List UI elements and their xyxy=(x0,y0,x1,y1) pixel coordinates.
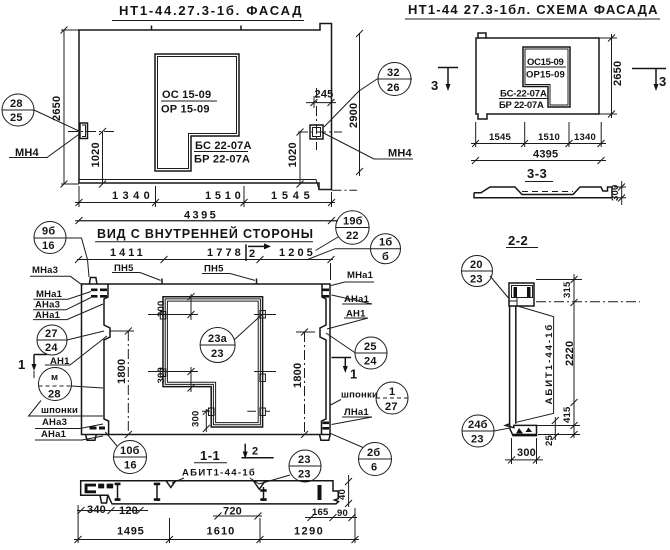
facade bottom dim 4395 xyxy=(75,210,338,225)
label ПН5 #1 xyxy=(112,263,162,285)
left face line with corbel xyxy=(104,284,110,435)
section 3-3 profile xyxy=(474,187,612,198)
dim 1020 right xyxy=(287,129,304,188)
label ЛНа1 right xyxy=(332,407,373,425)
svg-text:2220: 2220 xyxy=(564,341,576,366)
svg-text:40: 40 xyxy=(337,489,348,500)
svg-text:23а: 23а xyxy=(208,333,228,345)
label OC 15-09 xyxy=(161,89,217,116)
beam 1-1 outline xyxy=(81,481,339,504)
svg-text:340: 340 xyxy=(87,504,106,516)
svg-text:32: 32 xyxy=(387,67,400,79)
right face line with corbel xyxy=(320,284,326,435)
svg-text:1б: 1б xyxy=(379,237,392,249)
anchor bar mid-left xyxy=(154,483,160,501)
svg-text:24: 24 xyxy=(45,342,58,354)
dim row 1411/1778/1205 xyxy=(75,247,335,263)
svg-text:27: 27 xyxy=(385,401,398,413)
title facade xyxy=(112,3,304,21)
callout circle 9б/16 xyxy=(34,222,89,278)
label АНа3 left xyxy=(33,298,91,311)
callout circle 32/26 xyxy=(324,63,412,128)
svg-text:24: 24 xyxy=(364,356,377,368)
svg-text:26: 26 xyxy=(387,82,400,94)
callout circle м/28 xyxy=(39,368,104,401)
2-2 axis dash lines xyxy=(537,279,582,281)
dim 165/90 xyxy=(305,507,357,521)
svg-text:МНа3: МНа3 xyxy=(32,265,58,276)
svg-text:245: 245 xyxy=(315,89,334,101)
svg-text:1020: 1020 xyxy=(287,142,299,167)
dim 720 xyxy=(213,506,262,520)
dim 1800 right xyxy=(292,329,315,439)
svg-text:МН4: МН4 xyxy=(388,148,413,160)
svg-text:1: 1 xyxy=(350,367,358,382)
label МН4 right xyxy=(324,133,414,160)
svg-text:23: 23 xyxy=(298,454,311,466)
svg-text:165: 165 xyxy=(312,507,329,518)
svg-text:АБИТ1-44-1б: АБИТ1-44-1б xyxy=(182,468,255,479)
callout circle 23а/23 xyxy=(200,315,262,363)
svg-text:20: 20 xyxy=(470,259,483,271)
wedge mark 1 (1-1) xyxy=(166,481,176,488)
dim 1020 left xyxy=(90,128,106,188)
svg-text:23: 23 xyxy=(298,469,311,481)
svg-text:19б: 19б xyxy=(343,216,363,228)
label шпонки left xyxy=(29,401,104,417)
svg-text:ОР 15-09: ОР 15-09 xyxy=(161,104,210,116)
svg-text:2650: 2650 xyxy=(612,61,624,86)
svg-text:1290: 1290 xyxy=(294,526,323,538)
section mark 2 bottom xyxy=(241,444,273,459)
scheme panel outline xyxy=(476,33,599,119)
callout circle 20/23 xyxy=(462,256,509,299)
svg-text:720: 720 xyxy=(223,506,242,518)
label БС-22-07А scheme xyxy=(499,89,548,112)
svg-text:315: 315 xyxy=(562,281,573,298)
label МНа1 left xyxy=(34,289,92,300)
2-2 panel strip xyxy=(510,306,516,424)
label АНа3 left bottom xyxy=(35,417,103,429)
svg-text:25: 25 xyxy=(544,435,555,446)
dowel dashes bottom-right xyxy=(323,422,330,430)
anchor bar mid-right xyxy=(260,487,266,501)
svg-text:1: 1 xyxy=(18,357,26,372)
scheme window opening xyxy=(523,47,570,107)
callout circle 1б/6 xyxy=(307,234,401,264)
svg-text:16: 16 xyxy=(42,240,55,252)
callout circle 27/24 xyxy=(37,325,104,355)
2-2 top box (window frame section) xyxy=(509,283,534,306)
callout circle 23/23 xyxy=(259,450,321,484)
bottom-left lug xyxy=(86,435,97,441)
facade top edge tick right xyxy=(240,26,242,31)
svg-text:300: 300 xyxy=(156,367,167,383)
dim 300 window top xyxy=(148,293,276,320)
svg-text:ВИД С ВНУТРЕННЕЙ СТОРОНЫ: ВИД С ВНУТРЕННЕЙ СТОРОНЫ xyxy=(97,226,314,241)
svg-text:1495: 1495 xyxy=(117,526,144,538)
svg-text:НТ1-44 27.3-1бл. СХЕМА ФАСАДА: НТ1-44 27.3-1бл. СХЕМА ФАСАДА xyxy=(408,2,658,17)
title 2-2 xyxy=(506,233,538,248)
svg-text:1610: 1610 xyxy=(207,526,235,538)
label шпонки right xyxy=(331,390,379,406)
facade top edge tick left xyxy=(151,26,153,31)
dim 300 (2-2 bottom) xyxy=(505,438,543,464)
label МНа3 xyxy=(30,265,83,285)
callout circle 2б/6 xyxy=(330,433,391,475)
svg-text:ОС15-09: ОС15-09 xyxy=(527,57,564,68)
svg-text:24б: 24б xyxy=(468,419,488,431)
dim 1800 left xyxy=(110,328,134,439)
svg-text:28: 28 xyxy=(48,389,61,401)
label БС 22-07А xyxy=(194,140,252,166)
dim 300 window mid xyxy=(148,367,276,392)
facade panel bottom inner line xyxy=(79,180,332,190)
section mark 1 right xyxy=(332,358,359,382)
dim 300 window bottom xyxy=(191,408,271,432)
dim 300 (3-3) xyxy=(610,181,626,205)
svg-text:120: 120 xyxy=(119,505,138,517)
svg-text:4395: 4395 xyxy=(533,149,558,161)
svg-text:1510: 1510 xyxy=(538,132,560,143)
dim row 1495/1610/1290 xyxy=(74,505,359,543)
callout circle 24б/23 xyxy=(462,415,510,447)
svg-text:БР 22-07А: БР 22-07А xyxy=(194,154,250,166)
svg-text:9б: 9б xyxy=(42,226,55,238)
dim 4395 middle xyxy=(77,220,338,222)
svg-text:1545: 1545 xyxy=(489,132,511,143)
callout circle 25/24 xyxy=(326,333,387,369)
dim 2900 xyxy=(348,30,363,176)
dim 25 (2-2) xyxy=(544,417,559,446)
dowel dashes top-left xyxy=(91,289,107,298)
svg-text:3: 3 xyxy=(659,74,667,89)
dowel dashes top-right xyxy=(323,289,330,298)
svg-text:6: 6 xyxy=(371,462,377,474)
svg-text:МНа1: МНа1 xyxy=(347,270,374,281)
dim 315/2220/415 (2-2 right) xyxy=(520,274,580,438)
svg-text:2-2: 2-2 xyxy=(508,233,528,248)
section mark 1 left xyxy=(18,355,47,379)
callout circle 28/25 xyxy=(2,94,80,132)
label МНа1 right xyxy=(331,270,374,286)
svg-text:2: 2 xyxy=(249,248,255,260)
svg-text:10б: 10б xyxy=(120,445,140,457)
label АН1 left xyxy=(45,336,107,367)
svg-text:ЛНа1: ЛНа1 xyxy=(344,407,369,418)
svg-text:300: 300 xyxy=(191,411,202,427)
svg-text:300: 300 xyxy=(610,185,621,201)
svg-text:ОС 15-09: ОС 15-09 xyxy=(162,89,211,101)
svg-text:2: 2 xyxy=(252,446,258,458)
svg-text:2б: 2б xyxy=(367,447,380,459)
dim 245 top right xyxy=(306,88,336,108)
svg-text:1: 1 xyxy=(389,386,395,398)
svg-text:ПН5: ПН5 xyxy=(204,264,224,275)
dim row 340/120 xyxy=(77,504,148,517)
section mark 2 top xyxy=(246,243,271,261)
dowel dashes bottom-left xyxy=(90,427,106,430)
middle window opening xyxy=(163,297,263,427)
facade bottom dim row 1340/1510/1545 xyxy=(75,186,335,207)
svg-text:23: 23 xyxy=(471,434,484,446)
callout circle 1/27 xyxy=(376,382,408,414)
svg-text:22: 22 xyxy=(346,230,359,242)
svg-text:БС 22-07А: БС 22-07А xyxy=(195,140,252,152)
section mark 3 right xyxy=(632,69,667,92)
svg-text:300: 300 xyxy=(156,301,167,317)
label АБИТ1-44-1б (2-2) xyxy=(516,306,555,423)
svg-text:25: 25 xyxy=(364,341,377,353)
svg-text:16: 16 xyxy=(124,460,137,472)
svg-text:АНа1: АНа1 xyxy=(41,429,67,440)
svg-text:23: 23 xyxy=(211,348,224,360)
svg-text:1800: 1800 xyxy=(116,359,128,384)
anchor МН4 right (facade) xyxy=(298,88,342,150)
svg-text:1340: 1340 xyxy=(574,132,596,143)
dim 2650 facade xyxy=(51,27,79,188)
svg-text:2650: 2650 xyxy=(51,96,63,121)
svg-text:шпонки: шпонки xyxy=(341,390,378,401)
label АНа1 left xyxy=(33,304,103,321)
middle panel outline xyxy=(82,263,331,440)
window frame marks xyxy=(160,311,265,416)
label АНа1 left bottom xyxy=(35,429,103,440)
svg-text:1020: 1020 xyxy=(90,142,102,167)
anchor МН4 left (facade) xyxy=(68,123,116,139)
svg-text:415: 415 xyxy=(562,406,573,423)
2-2 bottom foot xyxy=(506,424,537,436)
bottom-right lug xyxy=(320,435,331,441)
scheme dim 4395 xyxy=(471,149,606,165)
anchor bar right xyxy=(318,485,322,500)
section mark 3 left xyxy=(431,68,458,94)
svg-text:ОР15-09: ОР15-09 xyxy=(526,70,565,81)
svg-text:25: 25 xyxy=(10,112,23,124)
svg-text:БС-22-07А: БС-22-07А xyxy=(500,89,547,100)
svg-text:23: 23 xyxy=(470,274,483,286)
svg-text:МНа1: МНа1 xyxy=(36,289,63,300)
title view from inner side xyxy=(95,226,314,242)
top-left lug xyxy=(89,278,97,285)
svg-text:90: 90 xyxy=(337,508,348,519)
label АБИТ1-44-1б xyxy=(172,468,259,485)
label ОС15-09 scheme xyxy=(526,57,566,81)
label АНа1 right xyxy=(332,294,373,305)
dim 40 (1-1 right) xyxy=(337,475,352,507)
title 1-1 xyxy=(194,448,227,463)
scheme dim row 1545/1510/1340 xyxy=(471,122,606,147)
facade panel outline xyxy=(79,24,332,190)
label МН4 left xyxy=(9,134,80,160)
title scheme xyxy=(405,2,660,19)
svg-text:2900: 2900 xyxy=(348,103,360,128)
svg-text:м: м xyxy=(51,372,58,383)
callout circle 10б/16 xyxy=(105,432,146,474)
dim extension top-right xyxy=(330,263,332,280)
svg-text:3: 3 xyxy=(431,78,439,93)
svg-text:БР 22-07А: БР 22-07А xyxy=(499,100,544,111)
svg-text:шпонки: шпонки xyxy=(41,405,78,416)
anchor bar left xyxy=(115,483,121,501)
label ПН5 #2 xyxy=(202,264,257,285)
svg-text:28: 28 xyxy=(10,98,23,110)
callout circle 19б/22 xyxy=(316,211,370,251)
wedge mark 2 (1-1) xyxy=(254,481,266,489)
beam left end channel detail xyxy=(85,484,114,494)
beam left bottom notch xyxy=(100,495,108,503)
svg-text:1800: 1800 xyxy=(292,363,304,388)
svg-text:1-1: 1-1 xyxy=(200,448,220,463)
svg-text:АНа1: АНа1 xyxy=(344,294,370,305)
svg-text:НТ1-44.27.3-1б. ФАСАД: НТ1-44.27.3-1б. ФАСАД xyxy=(119,3,302,18)
svg-text:АНа3: АНа3 xyxy=(42,417,67,428)
svg-text:3-3: 3-3 xyxy=(527,166,547,181)
svg-text:300: 300 xyxy=(517,447,536,459)
svg-text:б: б xyxy=(382,251,389,263)
facade window opening xyxy=(155,54,239,171)
scheme dim 2650 xyxy=(599,34,624,118)
label АН1 right xyxy=(327,308,368,329)
title 3-3 xyxy=(525,166,553,182)
svg-text:27: 27 xyxy=(45,328,58,340)
